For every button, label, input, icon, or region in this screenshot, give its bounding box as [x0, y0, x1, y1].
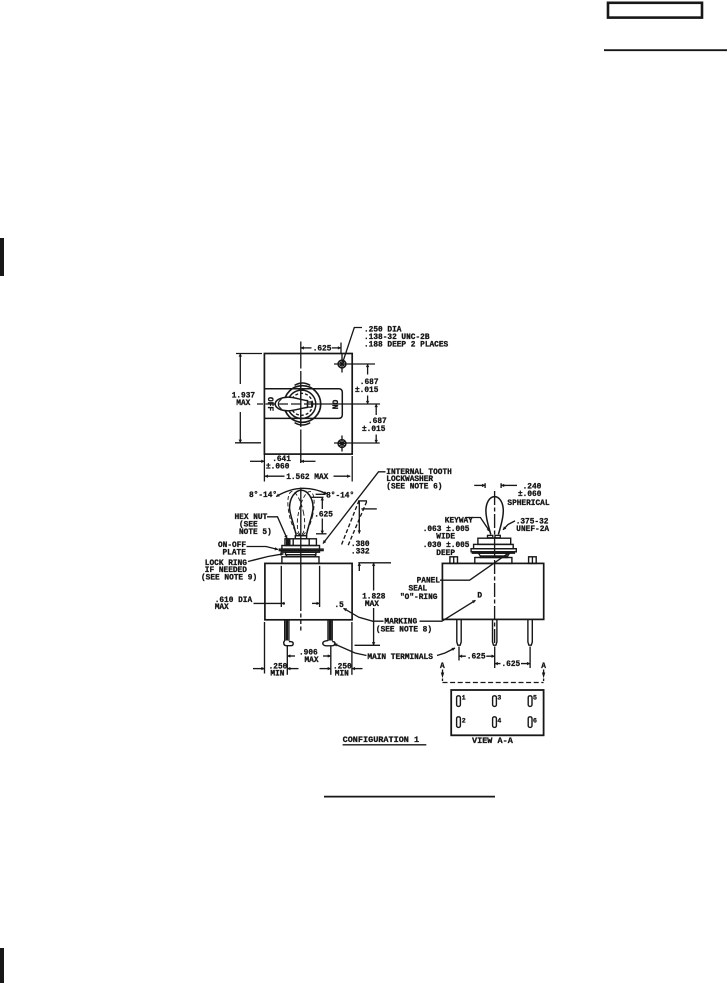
bushing stack [471, 538, 516, 563]
centerline overlay horizontal [278, 403, 318, 405]
leader to screw hole note [343, 328, 362, 363]
svg-text:MAX: MAX [236, 400, 250, 408]
svg-text:OFF: OFF [265, 397, 273, 411]
svg-text:.625: .625 [502, 661, 521, 669]
switch body behind plate (wing rectangle) [264, 389, 342, 419]
svg-text:(SEE NOTE 9): (SEE NOTE 9) [201, 574, 257, 582]
locating ear right [529, 557, 537, 564]
dim .641 bottom [250, 454, 316, 481]
svg-text:.5: .5 [335, 602, 345, 610]
svg-text:.030 ±.005: .030 ±.005 [423, 542, 470, 550]
dim .610 projection [254, 566, 320, 607]
page frame: left margin bar lower [0, 948, 4, 983]
svg-text:2: 2 [462, 717, 466, 724]
centerline through lever and body [300, 488, 302, 608]
dim .906 MAX [287, 646, 331, 675]
terminal right (J-hook) [323, 620, 335, 646]
horizontal centerline [257, 403, 380, 405]
svg-text:4: 4 [497, 717, 501, 724]
toggle lever pointing left [275, 397, 307, 411]
svg-text:MAX: MAX [365, 601, 379, 609]
svg-text:±.060: ±.060 [518, 491, 542, 499]
svg-text:.687: .687 [360, 379, 379, 387]
dim .625 terminals 1-2 [459, 647, 495, 669]
thread circle (hidden) [291, 393, 313, 415]
lock ring bottom tab [295, 423, 311, 425]
bat lever solid [290, 490, 313, 535]
page frame: left margin bar upper [0, 238, 4, 276]
terminal slot 6 [528, 717, 532, 728]
svg-text:5: 5 [533, 694, 537, 701]
locating ear left [450, 557, 458, 564]
dim .625 lever height [311, 497, 327, 534]
svg-text:DEEP: DEEP [436, 550, 455, 558]
lever tilted position right (dashed) [294, 490, 317, 536]
dim .687 upper right [367, 364, 369, 404]
dim .625 top [301, 343, 341, 355]
terminal slot 1 [457, 696, 461, 707]
lock ring outer circle [284, 386, 321, 423]
svg-text:KEYWAY: KEYWAY [445, 517, 473, 525]
svg-text:1.562 MAX: 1.562 MAX [286, 474, 328, 482]
terminal slot 3 [493, 696, 497, 707]
svg-text:1: 1 [462, 694, 466, 701]
svg-text:WIDE: WIDE [436, 534, 455, 542]
svg-text:MIN: MIN [270, 671, 284, 679]
page frame: top-right header box [608, 3, 702, 18]
svg-text:.332: .332 [351, 548, 370, 556]
centerline overlay vertical [300, 383, 302, 426]
lever tilted position left (dashed) [285, 490, 308, 536]
svg-text:8°-14°: 8°-14° [326, 491, 354, 500]
bushing circle [287, 390, 315, 418]
svg-text:8°-14°: 8°-14° [249, 491, 277, 500]
svg-text:MAX: MAX [305, 657, 319, 665]
dim .380/.332 bushing [342, 501, 377, 571]
keyway bumps at lever base [488, 535, 493, 537]
screw hole top [338, 354, 346, 373]
svg-text:PLATE: PLATE [223, 549, 247, 557]
svg-text:.625: .625 [313, 345, 332, 353]
svg-text:UNEF-2A: UNEF-2A [516, 526, 549, 534]
svg-text:±.060: ±.060 [266, 464, 290, 472]
terminal slot 5 [528, 696, 532, 707]
hex nut and washer stack [279, 536, 323, 564]
terminal 3 blade [528, 620, 532, 645]
body outline [442, 563, 543, 619]
terminal 2 blade [493, 620, 497, 645]
terminal left (J-hook) [284, 620, 293, 646]
svg-text:6: 6 [533, 717, 537, 724]
svg-text:PANEL: PANEL [417, 577, 441, 585]
screw hole bottom [338, 436, 346, 452]
svg-text:SPHERICAL: SPHERICAL [507, 500, 549, 508]
dim 1.828 MAX [355, 563, 392, 646]
svg-text:3: 3 [497, 694, 501, 701]
svg-text:MAIN TERMINALS: MAIN TERMINALS [367, 654, 433, 662]
view A-A box [451, 690, 543, 735]
svg-text:VIEW A-A: VIEW A-A [472, 736, 514, 746]
label 8-14 right [316, 493, 326, 495]
hole center extension top [334, 363, 375, 365]
vertical centerline [300, 342, 302, 464]
dim .687 lower right [375, 404, 377, 443]
bat lever spherical tip [486, 497, 503, 535]
svg-text:SEAL: SEAL [409, 585, 428, 593]
centerline [494, 491, 496, 645]
dim 1.937 MAX left [235, 354, 262, 443]
dim .250 MIN right [320, 622, 363, 675]
svg-text:(SEE NOTE 8): (SEE NOTE 8) [376, 626, 432, 634]
svg-text:.188 DEEP 2 PLACES: .188 DEEP 2 PLACES [364, 341, 449, 349]
dim .250 MIN left [253, 622, 299, 674]
terminal slot 2 [457, 717, 461, 728]
svg-text:MAX: MAX [215, 604, 229, 612]
body outline [265, 563, 352, 619]
svg-text:±.015: ±.015 [362, 426, 386, 434]
svg-text:.687: .687 [368, 418, 387, 426]
dim .625 terminals 2-3 [529, 647, 531, 669]
terminal slot 4 [493, 717, 497, 728]
swing arc with arrows [276, 488, 327, 496]
svg-text:.625: .625 [467, 653, 486, 661]
svg-text:"O"-RING: "O"-RING [400, 594, 438, 602]
hole center extension bottom [334, 442, 380, 444]
terminal 1 blade [457, 620, 461, 645]
lever keyway square [308, 402, 312, 407]
lockwasher tooth shading [286, 540, 291, 546]
svg-text:D: D [477, 593, 482, 601]
svg-text:MIN: MIN [335, 671, 349, 679]
dim .240 spherical [474, 483, 517, 488]
svg-text:.625: .625 [314, 512, 333, 520]
lever tip inner arc [278, 399, 281, 409]
section line A-A dashed [443, 682, 544, 684]
svg-text:±.015: ±.015 [355, 387, 379, 395]
dim 1.562 MAX bottom [265, 456, 352, 482]
page frame: top-right rule line [604, 49, 727, 51]
svg-text:(SEE NOTE 6): (SEE NOTE 6) [386, 483, 442, 491]
page frame: bottom center rule [324, 796, 495, 798]
mounting plate outline [264, 354, 352, 455]
svg-text:CONFIGURATION 1: CONFIGURATION 1 [343, 735, 420, 745]
lock ring top tab [295, 383, 311, 385]
svg-text:ON: ON [329, 400, 337, 410]
svg-text:NOTE 5): NOTE 5) [239, 529, 272, 537]
